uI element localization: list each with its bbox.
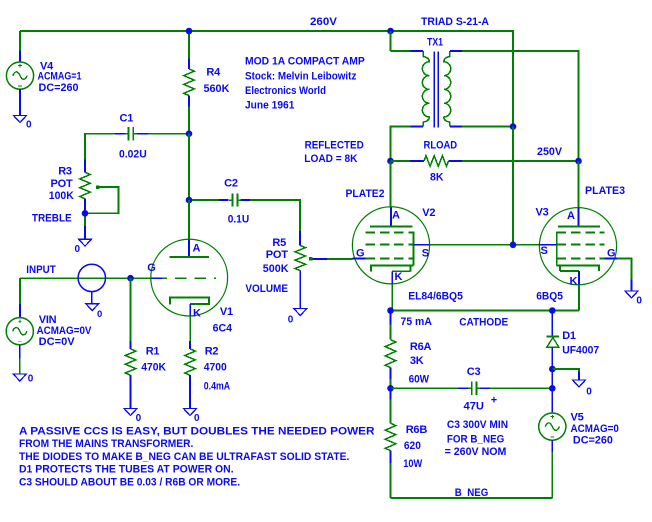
diode D1 <box>551 311 553 337</box>
wire cathode row <box>391 310 580 312</box>
svg-text:6BQ5: 6BQ5 <box>536 291 563 303</box>
R5 wiper <box>309 257 312 260</box>
svg-text:R2: R2 <box>205 346 219 358</box>
node junction rail/R4 <box>186 28 193 35</box>
capacitor C3 <box>458 387 468 389</box>
node junction screens <box>510 242 517 249</box>
svg-text:G: G <box>147 262 155 274</box>
svg-text:V1: V1 <box>220 306 233 318</box>
wire C2 row <box>189 199 219 201</box>
svg-text:UF4007: UF4007 <box>562 345 599 357</box>
capacitor C2 <box>219 199 228 201</box>
svg-text:June 1961: June 1961 <box>245 100 294 112</box>
wire secondary bottom <box>462 126 513 128</box>
svg-text:C1: C1 <box>120 113 134 125</box>
svg-text:0: 0 <box>586 386 592 397</box>
svg-text:POT: POT <box>51 178 73 190</box>
svg-text:R6A: R6A <box>410 341 432 353</box>
svg-text:R1: R1 <box>146 346 160 358</box>
svg-text:3K: 3K <box>410 355 424 367</box>
svg-text:0: 0 <box>194 413 200 424</box>
svg-text:ACMAG=0: ACMAG=0 <box>571 423 619 435</box>
ground R5 <box>294 309 307 316</box>
svg-text:500K: 500K <box>263 263 289 275</box>
svg-text:R6B: R6B <box>406 424 428 436</box>
svg-text:DC=0V: DC=0V <box>39 336 76 348</box>
svg-text:0: 0 <box>75 244 81 255</box>
node junction R4/C1 <box>186 130 193 137</box>
wire secondary top to PLATE3 <box>462 51 579 161</box>
svg-text:560K: 560K <box>204 83 230 95</box>
svg-text:B_NEG: B_NEG <box>455 487 489 499</box>
svg-text:K: K <box>395 271 403 283</box>
voltage source V5 <box>551 369 553 388</box>
node junction C2/anode <box>186 197 193 204</box>
voltage source VIN <box>19 278 21 304</box>
svg-text:10W: 10W <box>403 458 423 470</box>
svg-text:G: G <box>356 248 364 260</box>
ground R2 <box>184 409 197 416</box>
svg-text:470K: 470K <box>141 361 166 373</box>
svg-text:D1 PROTECTS THE TUBES AT POWE: D1 PROTECTS THE TUBES AT POWER ON. <box>19 464 234 476</box>
node junction rail/TX1 <box>387 28 394 35</box>
transformer TX1 <box>390 31 392 51</box>
svg-text:TX1: TX1 <box>427 37 443 49</box>
node junction R6A/C3 <box>387 385 394 392</box>
svg-text:THE DIODES TO MAKE B_NEG CAN B: THE DIODES TO MAKE B_NEG CAN BE ULTRAFAS… <box>19 451 349 463</box>
svg-text:A: A <box>567 210 575 222</box>
svg-text:8K: 8K <box>430 172 444 184</box>
svg-text:0: 0 <box>636 295 642 306</box>
svg-text:G: G <box>607 247 615 259</box>
ground D1 <box>573 380 586 387</box>
svg-text:PLATE3: PLATE3 <box>585 185 625 197</box>
svg-text:MOD 1A COMPACT AMP: MOD 1A COMPACT AMP <box>245 56 365 68</box>
svg-text:C3: C3 <box>467 366 481 378</box>
svg-text:FROM THE MAINS TRANSFORMER.: FROM THE MAINS TRANSFORMER. <box>19 438 193 450</box>
svg-text:TRIAD S-21-A: TRIAD S-21-A <box>421 16 489 28</box>
svg-text:+: + <box>491 394 497 406</box>
voltage source V4 <box>19 51 21 63</box>
node junction RLOAD right 250V <box>575 158 582 165</box>
ground probe <box>86 304 99 311</box>
svg-text:0: 0 <box>28 373 34 384</box>
svg-text:75 mA: 75 mA <box>401 316 432 328</box>
node junction cathode/D1 <box>549 307 556 314</box>
wire C1 row <box>147 133 189 135</box>
svg-text:0.02U: 0.02U <box>119 148 147 160</box>
svg-text:620: 620 <box>404 440 421 452</box>
ground R3 <box>79 239 92 246</box>
svg-text:K: K <box>193 308 201 320</box>
svg-text:0: 0 <box>26 120 32 131</box>
svg-text:VOLUME: VOLUME <box>245 283 288 295</box>
wire V3 grid to ground <box>617 258 632 279</box>
svg-text:DC=260: DC=260 <box>39 82 79 94</box>
capacitor C1 <box>115 133 125 135</box>
svg-text:A PASSIVE CCS IS EASY, BUT DOU: A PASSIVE CCS IS EASY, BUT DOUBLES THE N… <box>19 425 375 437</box>
svg-text:POT: POT <box>266 249 288 261</box>
wire 260V rail <box>20 31 513 127</box>
pentode V3 <box>539 208 616 285</box>
wire input row <box>20 277 151 279</box>
svg-text:R5: R5 <box>272 237 286 249</box>
resistor R1 <box>130 278 132 341</box>
svg-text:ACMAG=1: ACMAG=1 <box>38 71 82 83</box>
potentiometer R5 <box>299 231 301 246</box>
svg-text:INPUT: INPUT <box>26 264 56 276</box>
svg-text:250V: 250V <box>537 146 563 158</box>
svg-text:V3: V3 <box>536 206 549 218</box>
svg-text:REFLECTED: REFLECTED <box>305 140 364 152</box>
svg-text:C3 SHOULD ABOUT BE 0.03 / R6B: C3 SHOULD ABOUT BE 0.03 / R6B OR MORE. <box>19 476 240 488</box>
wire C3 row <box>391 387 459 389</box>
ground V3 grid <box>625 291 638 298</box>
svg-text:0.1U: 0.1U <box>228 213 250 225</box>
R3 wiper <box>96 185 99 188</box>
wire screen row <box>430 244 540 246</box>
svg-text:PLATE2: PLATE2 <box>346 188 385 200</box>
ground VIN <box>13 374 26 381</box>
wire D1 to ground <box>552 369 579 372</box>
current probe <box>78 264 105 291</box>
svg-text:C2: C2 <box>224 178 238 190</box>
svg-text:CATHODE: CATHODE <box>459 317 508 329</box>
potentiometer R3 <box>84 160 86 173</box>
svg-text:D1: D1 <box>562 330 576 342</box>
svg-text:S: S <box>422 247 429 259</box>
node junction D1/ground <box>549 366 556 373</box>
node junction RLOAD left <box>387 158 394 165</box>
node junction C3/V5 <box>549 385 556 392</box>
svg-text:FOR B_NEG: FOR B_NEG <box>447 433 504 445</box>
svg-text:260V: 260V <box>310 16 338 28</box>
svg-text:0: 0 <box>97 309 102 320</box>
svg-text:LOAD = 8K: LOAD = 8K <box>304 153 357 165</box>
svg-text:RLOAD: RLOAD <box>424 140 458 152</box>
resistor R6A <box>390 311 392 325</box>
svg-text:60W: 60W <box>409 373 430 385</box>
svg-text:0.4mA: 0.4mA <box>204 381 230 393</box>
svg-text:A: A <box>392 209 400 221</box>
wire V1 anode <box>188 200 190 239</box>
wire R4 to C2 node <box>188 134 190 200</box>
svg-text:100K: 100K <box>49 190 74 202</box>
resistor R2 <box>189 341 191 349</box>
svg-text:V5: V5 <box>571 411 584 423</box>
svg-text:C3 300V MIN: C3 300V MIN <box>447 419 508 431</box>
svg-text:S: S <box>541 245 548 257</box>
node junction input/R1 <box>127 275 134 282</box>
svg-text:K: K <box>570 275 578 287</box>
svg-text:6C4: 6C4 <box>213 323 233 335</box>
resistor R4 <box>188 31 190 59</box>
svg-text:4700: 4700 <box>204 361 227 373</box>
node junction secondary/rail <box>510 123 517 130</box>
triode V1 <box>151 239 228 316</box>
svg-text:EL84/6BQ5: EL84/6BQ5 <box>408 291 463 303</box>
svg-text:DC=260: DC=260 <box>573 435 613 447</box>
svg-text:Stock: Melvin Leibowitz: Stock: Melvin Leibowitz <box>245 70 357 82</box>
wire V4 to rail <box>19 31 21 51</box>
svg-text:0: 0 <box>288 315 294 326</box>
wire V2 anode PLATE2 <box>390 161 392 207</box>
node junction R3/wiper <box>82 210 89 217</box>
wire screens vertical <box>512 127 514 245</box>
svg-text:V2: V2 <box>422 207 435 219</box>
pentode V2 <box>352 207 429 284</box>
svg-text:= 260V NOM: = 260V NOM <box>445 446 507 458</box>
ground V4 <box>14 116 27 123</box>
svg-text:47U: 47U <box>464 401 485 413</box>
svg-text:Electronics World: Electronics World <box>245 85 326 97</box>
svg-text:R3: R3 <box>58 166 72 178</box>
node junction cathode/R6A <box>387 307 394 314</box>
svg-text:TREBLE: TREBLE <box>32 212 72 224</box>
resistor RLOAD <box>391 160 411 162</box>
ground R1 <box>124 409 137 416</box>
wire B_NEG <box>391 497 553 499</box>
svg-text:A: A <box>193 243 201 255</box>
svg-text:0: 0 <box>136 413 142 424</box>
resistor R6B <box>390 388 392 399</box>
svg-text:R4: R4 <box>206 66 221 78</box>
